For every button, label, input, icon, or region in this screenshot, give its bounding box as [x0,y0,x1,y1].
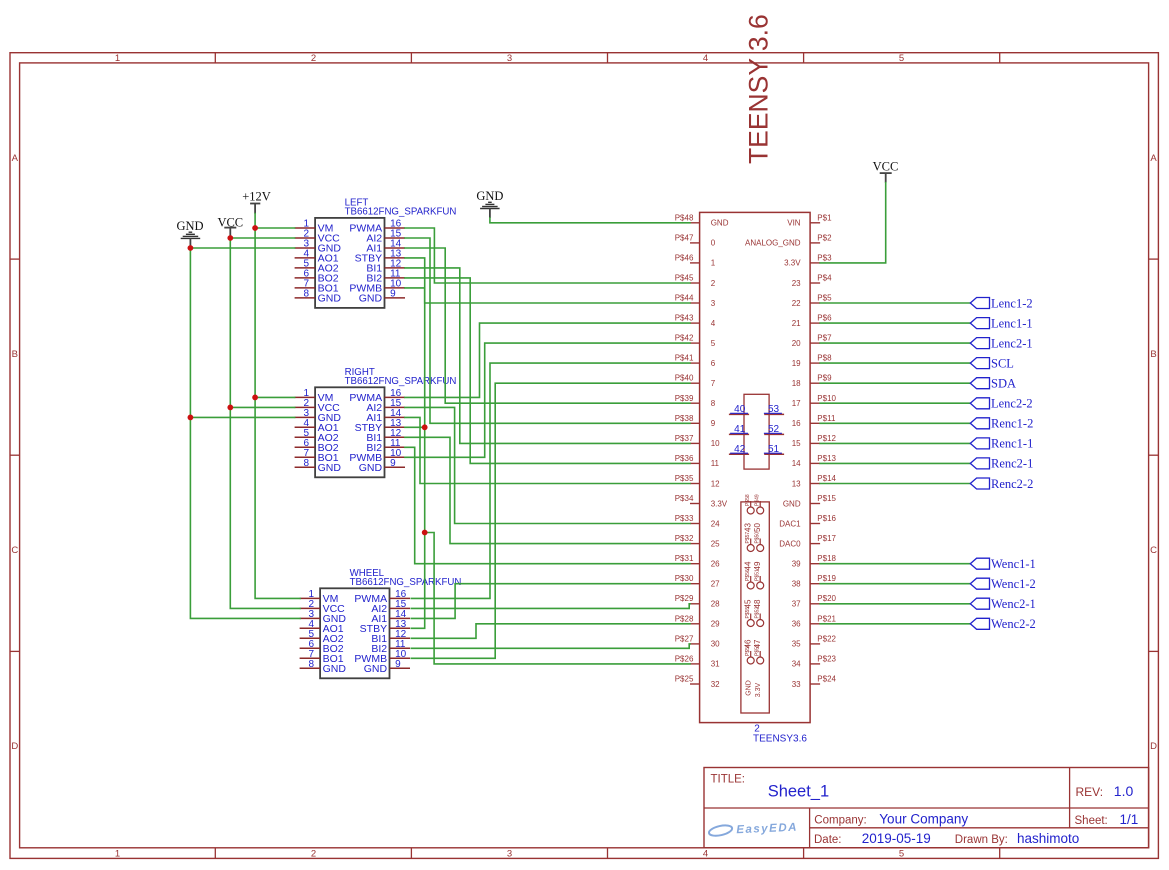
svg-text:P$30: P$30 [675,574,694,583]
svg-text:43: 43 [743,523,752,532]
svg-text:C: C [11,545,18,556]
svg-text:P$21: P$21 [817,614,836,623]
svg-text:Date:: Date: [814,834,842,846]
svg-text:GND: GND [364,663,388,675]
svg-text:P$42: P$42 [675,334,694,343]
svg-text:4: 4 [703,53,708,64]
svg-text:DAC0: DAC0 [779,539,801,548]
svg-text:Wenc2-1: Wenc2-1 [991,597,1036,611]
svg-text:P$36: P$36 [675,454,694,463]
svg-text:45: 45 [743,599,752,608]
svg-text:30: 30 [711,640,720,649]
svg-text:Wenc1-1: Wenc1-1 [991,557,1036,571]
svg-text:35: 35 [792,640,801,649]
svg-text:P$32: P$32 [675,534,694,543]
svg-text:VCC: VCC [873,159,899,173]
svg-text:32: 32 [711,680,720,689]
svg-text:14: 14 [792,459,801,468]
svg-text:28: 28 [711,600,720,609]
svg-text:P$35: P$35 [675,474,694,483]
svg-text:GND: GND [176,219,203,233]
svg-text:P$5: P$5 [817,294,832,303]
svg-text:P$10: P$10 [817,394,836,403]
svg-text:P$37: P$37 [675,434,694,443]
svg-text:9: 9 [390,458,396,469]
svg-text:P$15: P$15 [817,494,836,503]
svg-text:37: 37 [792,600,801,609]
svg-text:GND: GND [745,680,752,696]
svg-text:P$34: P$34 [675,494,694,503]
svg-text:GND: GND [359,293,383,305]
svg-text:hashimoto: hashimoto [1017,831,1079,846]
svg-text:Lenc2-2: Lenc2-2 [991,397,1033,411]
svg-text:P$33: P$33 [675,514,694,523]
svg-text:P$2: P$2 [817,233,832,242]
svg-text:A: A [1150,153,1157,164]
svg-text:P$8: P$8 [817,354,832,363]
svg-text:DAC1: DAC1 [779,519,801,528]
svg-text:TEENSY3.6: TEENSY3.6 [753,734,807,745]
svg-text:34: 34 [792,660,801,669]
svg-text:21: 21 [792,319,801,328]
svg-text:P$6: P$6 [817,314,832,323]
svg-text:Company:: Company: [814,815,866,827]
svg-text:25: 25 [711,539,720,548]
svg-text:49: 49 [753,561,762,570]
svg-text:36: 36 [792,620,801,629]
svg-text:4: 4 [711,319,716,328]
svg-text:8: 8 [304,288,310,299]
svg-text:B: B [12,349,18,360]
svg-text:P$3: P$3 [817,253,832,262]
svg-text:38: 38 [792,580,801,589]
svg-text:P$13: P$13 [817,454,836,463]
svg-text:2: 2 [311,849,316,860]
svg-text:3: 3 [711,299,716,308]
svg-text:P$46: P$46 [675,253,694,262]
svg-text:P$7: P$7 [817,334,832,343]
svg-text:Renc2-2: Renc2-2 [991,477,1033,491]
svg-text:SDA: SDA [991,377,1016,391]
svg-text:Renc1-1: Renc1-1 [991,437,1033,451]
svg-text:22: 22 [792,299,801,308]
svg-text:P$45: P$45 [675,274,694,283]
svg-text:GND: GND [359,462,383,474]
svg-text:P$40: P$40 [675,374,694,383]
svg-text:3.3V: 3.3V [784,259,801,268]
svg-text:Wenc2-2: Wenc2-2 [991,617,1036,631]
svg-text:11: 11 [711,459,720,468]
svg-text:SCL: SCL [991,356,1014,370]
svg-text:P$39: P$39 [675,394,694,403]
svg-text:P$16: P$16 [817,514,836,523]
svg-text:13: 13 [792,479,801,488]
svg-text:1.0: 1.0 [1114,783,1134,799]
svg-text:P$29: P$29 [675,594,694,603]
svg-text:50: 50 [753,523,762,532]
svg-text:31: 31 [711,660,720,669]
svg-text:8: 8 [304,458,310,469]
svg-text:P$1: P$1 [817,213,832,222]
svg-text:P$14: P$14 [817,474,836,483]
svg-text:P$17: P$17 [817,534,836,543]
svg-text:0: 0 [711,239,716,248]
svg-text:3: 3 [507,53,512,64]
svg-text:TEENSY 3.6: TEENSY 3.6 [744,14,774,164]
svg-text:6: 6 [711,359,716,368]
svg-text:44: 44 [743,561,752,570]
svg-text:2: 2 [711,279,716,288]
svg-text:33: 33 [792,680,801,689]
svg-text:P$28: P$28 [675,614,694,623]
svg-text:P$9: P$9 [817,374,832,383]
svg-text:TB6612FNG_SPARKFUN: TB6612FNG_SPARKFUN [350,577,462,588]
svg-text:P$31: P$31 [675,554,694,563]
svg-text:5: 5 [899,53,904,64]
svg-text:Sheet:: Sheet: [1075,815,1108,827]
svg-text:P$41: P$41 [675,354,694,363]
svg-text:Lenc1-1: Lenc1-1 [991,316,1033,330]
svg-text:9: 9 [711,419,716,428]
svg-text:26: 26 [711,560,720,569]
svg-text:P$12: P$12 [817,434,836,443]
svg-text:12: 12 [711,479,720,488]
svg-text:3.3V: 3.3V [755,682,762,697]
svg-text:46: 46 [743,639,752,648]
svg-text:P$18: P$18 [817,554,836,563]
svg-text:P$24: P$24 [817,675,836,684]
svg-text:2: 2 [311,53,316,64]
svg-text:5: 5 [899,849,904,860]
svg-text:18: 18 [792,379,801,388]
svg-text:P$20: P$20 [817,594,836,603]
svg-text:Sheet_1: Sheet_1 [768,783,829,801]
svg-text:Lenc1-2: Lenc1-2 [991,296,1033,310]
svg-text:P$48: P$48 [675,213,694,222]
svg-text:P$58: P$58 [745,494,751,506]
svg-text:29: 29 [711,620,720,629]
svg-text:P$44: P$44 [675,294,694,303]
svg-text:39: 39 [792,560,801,569]
svg-text:19: 19 [792,359,801,368]
svg-text:3.3V: 3.3V [711,499,728,508]
svg-text:Renc2-1: Renc2-1 [991,457,1033,471]
svg-text:23: 23 [792,279,801,288]
svg-text:TITLE:: TITLE: [711,774,746,786]
svg-text:Drawn By:: Drawn By: [955,834,1008,846]
svg-text:9: 9 [390,288,396,299]
svg-text:P$43: P$43 [675,314,694,323]
svg-text:1: 1 [711,259,716,268]
svg-text:TB6612FNG_SPARKFUN: TB6612FNG_SPARKFUN [345,376,457,387]
svg-text:P$22: P$22 [817,634,836,643]
svg-text:8: 8 [309,659,315,670]
svg-text:VIN: VIN [787,219,801,228]
svg-text:P$26: P$26 [675,654,694,663]
svg-text:4: 4 [703,849,708,860]
svg-text:GND: GND [323,663,347,675]
svg-text:REV:: REV: [1076,785,1104,799]
svg-text:20: 20 [792,339,801,348]
svg-text:GND: GND [783,499,801,508]
svg-text:47: 47 [753,639,762,648]
svg-text:P$49: P$49 [755,494,761,506]
svg-text:A: A [12,153,19,164]
svg-text:P$27: P$27 [675,634,694,643]
svg-text:+12V: +12V [242,190,271,204]
svg-text:B: B [1150,349,1156,360]
svg-text:3: 3 [507,849,512,860]
svg-text:9: 9 [395,659,401,670]
svg-text:8: 8 [711,399,716,408]
svg-text:15: 15 [792,439,801,448]
svg-text:5: 5 [711,339,716,348]
svg-text:P$23: P$23 [817,654,836,663]
svg-text:P$47: P$47 [675,233,694,242]
svg-text:24: 24 [711,519,720,528]
svg-text:P$50: P$50 [755,532,761,544]
svg-text:TB6612FNG_SPARKFUN: TB6612FNG_SPARKFUN [345,207,457,218]
svg-text:Lenc2-1: Lenc2-1 [991,336,1033,350]
svg-text:P$19: P$19 [817,574,836,583]
svg-text:17: 17 [792,399,801,408]
svg-text:GND: GND [476,189,503,203]
svg-text:P$25: P$25 [675,675,694,684]
svg-text:10: 10 [711,439,720,448]
svg-text:Your Company: Your Company [879,812,968,827]
svg-text:C: C [1150,545,1157,556]
svg-text:D: D [11,741,18,752]
svg-text:1: 1 [115,53,120,64]
svg-text:GND: GND [318,293,342,305]
svg-text:P$57: P$57 [745,532,751,544]
svg-text:GND: GND [711,219,729,228]
svg-text:P$4: P$4 [817,274,832,283]
svg-text:1/1: 1/1 [1120,812,1139,827]
svg-text:ANALOG_GND: ANALOG_GND [745,239,801,248]
svg-text:Renc1-2: Renc1-2 [991,417,1033,431]
svg-text:D: D [1150,741,1157,752]
svg-text:1: 1 [115,849,120,860]
svg-text:48: 48 [753,599,762,608]
svg-text:16: 16 [792,419,801,428]
svg-text:7: 7 [711,379,716,388]
svg-text:P$38: P$38 [675,414,694,423]
svg-text:2019-05-19: 2019-05-19 [862,831,931,846]
svg-text:Wenc1-2: Wenc1-2 [991,577,1036,591]
svg-text:GND: GND [318,462,342,474]
svg-text:27: 27 [711,580,720,589]
svg-text:P$11: P$11 [817,414,836,423]
svg-text:EasyEDA: EasyEDA [736,822,798,837]
